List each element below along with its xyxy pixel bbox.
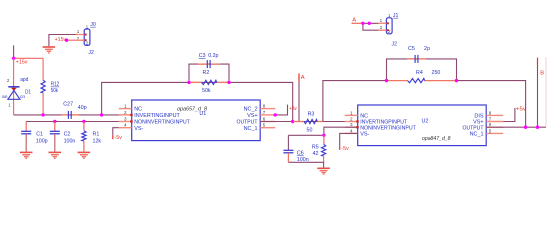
wire U1 VS- to -5v <box>113 128 119 136</box>
node C2 top <box>53 120 56 123</box>
svg-text:OUTPUT: OUTPUT <box>237 120 259 126</box>
ground (R1) <box>78 152 91 159</box>
wire U2 feedback (inverting input up and over) <box>323 81 387 122</box>
svg-text:R4: R4 <box>416 70 423 76</box>
node feedback/output junction <box>291 120 294 123</box>
capacitor C27 40p <box>61 102 87 119</box>
svg-text:+15v: +15v <box>55 37 67 43</box>
svg-text:6: 6 <box>489 122 492 127</box>
svg-text:OUTPUT: OUTPUT <box>463 125 485 131</box>
svg-text:R3: R3 <box>308 112 315 118</box>
svg-text:NC_1: NC_1 <box>244 126 258 132</box>
svg-text:NC_2: NC_2 <box>244 107 258 113</box>
ground (R5/C6) <box>317 168 330 175</box>
net A flag (J1) <box>352 17 364 23</box>
node J1 A junction 2 <box>368 22 371 25</box>
svg-text:+5v: +5v <box>516 106 526 112</box>
svg-text:8: 8 <box>489 110 492 115</box>
wire U2 pin3 to R5/C6 junction <box>324 127 358 135</box>
svg-text:J1: J1 <box>393 13 399 19</box>
net A stub (U1 output) <box>299 74 305 122</box>
node output/feedback junction <box>524 126 527 129</box>
node U1 pin7 stub <box>274 113 277 116</box>
svg-text:VS-: VS- <box>134 126 143 132</box>
op-amp U2 opa847_d_8 <box>345 105 504 146</box>
svg-text:2: 2 <box>124 110 127 115</box>
node R1 top <box>82 120 85 123</box>
svg-text:12k: 12k <box>93 139 102 145</box>
wire J1 pin2 loop <box>363 23 387 30</box>
wire faint sheet edge <box>545 57 547 127</box>
node J2 +15v junction <box>65 39 68 42</box>
svg-text:1: 1 <box>350 110 353 115</box>
wire C6 bottom to ground <box>288 162 323 167</box>
svg-text:NC: NC <box>134 107 142 113</box>
svg-text:4: 4 <box>124 123 127 128</box>
svg-text:1: 1 <box>77 29 80 34</box>
node C5/R4 right <box>455 79 458 82</box>
svg-text:3: 3 <box>124 116 127 121</box>
wire U2 VS+ to +5v <box>503 108 515 122</box>
resistor R3 50 <box>293 112 323 134</box>
svg-text:R1: R1 <box>93 132 100 138</box>
wire junction to C6 <box>288 134 324 136</box>
svg-text:50k: 50k <box>51 88 59 94</box>
svg-text:R2: R2 <box>203 70 210 76</box>
wire input line (diode to U1 pin2) <box>14 114 132 116</box>
wire U2 VS- to -5v <box>340 133 358 146</box>
svg-text:4: 4 <box>350 128 353 133</box>
ground (C1) <box>20 152 33 159</box>
svg-text:DIS: DIS <box>474 114 483 120</box>
svg-text:NONINVERTINGINPUT: NONINVERTINGINPUT <box>360 125 416 131</box>
svg-text:U2: U2 <box>422 118 429 124</box>
svg-text:J2: J2 <box>88 50 94 56</box>
resistor R5 42 <box>312 135 326 162</box>
svg-text:50k: 50k <box>202 88 211 94</box>
svg-text:0.2p: 0.2p <box>208 53 218 59</box>
node R5/C6/pin3 junction <box>322 134 325 137</box>
svg-text:8: 8 <box>263 104 266 109</box>
svg-text:+15v: +15v <box>16 59 28 65</box>
wire diode branch vertical <box>13 58 15 115</box>
svg-text:2: 2 <box>380 25 383 30</box>
node output/B junction <box>536 126 539 129</box>
svg-text:5: 5 <box>489 128 492 133</box>
connector J1 <box>380 13 399 48</box>
node +15v junction <box>12 57 15 60</box>
svg-text:NC: NC <box>360 114 368 120</box>
svg-text:D1: D1 <box>25 90 31 96</box>
wire feedback right to output <box>457 81 526 128</box>
power -5v flag (U2) <box>340 146 349 152</box>
svg-text:2p: 2p <box>424 46 430 52</box>
svg-text:cn: cn <box>20 95 25 100</box>
svg-text:opa847_d_8: opa847_d_8 <box>422 136 451 142</box>
power +5v flag (U2) <box>516 106 526 112</box>
svg-text:2: 2 <box>7 78 10 83</box>
svg-text:C5: C5 <box>408 46 415 52</box>
svg-text:+5v: +5v <box>289 106 297 112</box>
svg-text:VS+: VS+ <box>247 113 257 119</box>
diode D1 (apd photodiode) <box>2 77 31 107</box>
svg-text:C3: C3 <box>199 53 206 59</box>
svg-text:R12: R12 <box>51 82 60 88</box>
svg-text:A: A <box>301 75 305 81</box>
node C3/R2 left <box>187 81 190 84</box>
resistor R4 250 <box>387 70 457 83</box>
svg-text:C1: C1 <box>36 132 43 138</box>
wire C5 loop <box>387 59 457 81</box>
power +15v flag (left) <box>14 45 28 65</box>
svg-text:3: 3 <box>350 122 353 127</box>
wire J2 pin2 to +15v <box>67 39 85 41</box>
svg-text:INVERTINGINPUT: INVERTINGINPUT <box>134 113 180 119</box>
wire J2 pin1 to ground <box>49 35 84 47</box>
svg-text:7: 7 <box>263 110 266 115</box>
svg-text:NC_1: NC_1 <box>470 132 484 138</box>
svg-text:-5v: -5v <box>115 135 123 141</box>
svg-text:U1: U1 <box>199 111 206 117</box>
svg-text:B: B <box>540 70 544 76</box>
capacitor C1 100p <box>21 122 47 152</box>
svg-text:42: 42 <box>313 151 319 157</box>
power -5v flag (U1) <box>113 135 122 141</box>
svg-text:R5: R5 <box>312 144 319 150</box>
svg-text:5: 5 <box>263 123 266 128</box>
svg-text:7: 7 <box>489 116 492 121</box>
op-amp U1 opa657_d_8 <box>119 100 276 141</box>
svg-text:C6: C6 <box>297 150 304 156</box>
node feedback/input junction <box>100 113 103 116</box>
wire +15v node to R12 top <box>14 57 43 59</box>
svg-text:apd: apd <box>20 77 28 83</box>
resistor R2 50k <box>189 70 229 94</box>
capacitor C5 2p <box>407 46 430 63</box>
node C5/R4 left <box>385 79 388 82</box>
capacitor C6 100n <box>283 135 308 163</box>
svg-text:J0: J0 <box>90 22 96 28</box>
svg-text:1: 1 <box>380 18 383 23</box>
svg-text:100p: 100p <box>36 139 48 145</box>
wire U1 output line to U2 input <box>260 121 358 123</box>
svg-text:C2: C2 <box>64 132 71 138</box>
resistor R12 50k <box>41 58 59 115</box>
wire U1 VS+ to +5v <box>275 105 287 115</box>
svg-text:1: 1 <box>8 102 11 107</box>
svg-text:6: 6 <box>263 116 266 121</box>
ground (C2) <box>49 152 62 159</box>
svg-text:C27: C27 <box>63 102 73 108</box>
svg-text:2: 2 <box>86 41 89 46</box>
ground (J2) <box>43 46 56 53</box>
resistor R1 12k <box>82 122 102 152</box>
svg-text:1: 1 <box>124 104 127 109</box>
node C3/R2 right <box>227 81 230 84</box>
svg-text:50: 50 <box>307 127 313 133</box>
svg-text:NONINVERTINGINPUT: NONINVERTINGINPUT <box>134 120 190 126</box>
node J1 A junction 1 <box>361 22 364 25</box>
power +5v flag (U1) <box>289 106 297 112</box>
wire U1 feedback (inverting input to output) <box>102 82 293 121</box>
capacitor C3 0.2p <box>198 53 220 68</box>
svg-text:-5v: -5v <box>341 146 349 152</box>
svg-text:40p: 40p <box>78 105 87 111</box>
wire C3 loop <box>189 64 229 82</box>
connector J2 <box>77 22 96 56</box>
svg-text:2: 2 <box>350 116 353 121</box>
svg-text:an: an <box>2 95 8 100</box>
wire U2 output <box>486 126 546 128</box>
wire J1 pin1 <box>363 22 386 24</box>
svg-text:100n: 100n <box>64 139 76 145</box>
svg-text:VS-: VS- <box>360 132 369 138</box>
power +15v flag (J2) <box>55 37 67 43</box>
wire noninverting rail <box>26 121 132 123</box>
svg-text:A: A <box>352 17 356 23</box>
svg-text:250: 250 <box>432 70 441 76</box>
node R12/input junction <box>41 113 44 116</box>
net B stub <box>538 58 545 128</box>
svg-text:J2: J2 <box>392 41 398 47</box>
capacitor C2 100n <box>50 122 76 152</box>
